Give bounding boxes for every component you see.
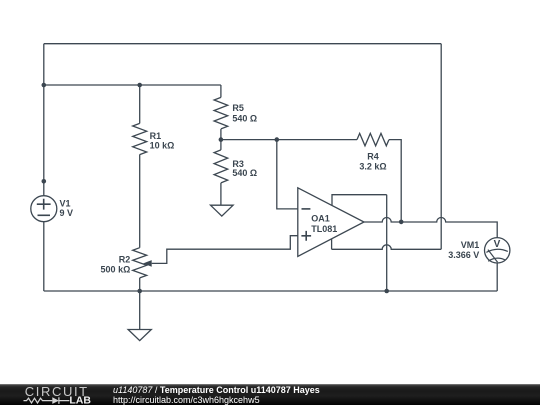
svg-text:TL081: TL081 xyxy=(311,224,337,234)
logo diode symbol xyxy=(52,397,59,404)
wire R5 top lead from second rail xyxy=(220,85,222,97)
junction dot output/feedback xyxy=(399,220,404,225)
wire op-amp V- pin stub xyxy=(331,239,333,250)
V1 plus sign xyxy=(37,199,51,210)
footer caption text xyxy=(113,385,320,405)
wire left rail lower (V1 - terminal to bottom rail) xyxy=(43,222,45,291)
resistor R3 xyxy=(214,150,228,183)
op-amp U1 triangle xyxy=(298,188,364,257)
footer bar xyxy=(0,384,540,405)
potentiometer R2 wiper arrow xyxy=(143,260,152,267)
wire R2 wiper to plus input xyxy=(152,236,298,264)
wire top rail xyxy=(44,43,441,45)
voltmeter VM1 needle and arcs xyxy=(486,249,508,252)
junction dot R2 bottom / ground xyxy=(137,289,142,294)
svg-text:R4: R4 xyxy=(367,152,379,162)
wire minus-input drop and entry xyxy=(277,140,298,209)
svg-text:V1: V1 xyxy=(60,198,71,208)
svg-text:OA1: OA1 xyxy=(311,214,330,224)
resistor R4 xyxy=(357,133,389,145)
svg-text:R5: R5 xyxy=(232,103,244,113)
ground (below R3) xyxy=(211,205,234,216)
wire R1 bottom to R2 top xyxy=(139,155,141,248)
wire V+ net vertical down to bottom rail xyxy=(386,195,388,291)
wire VM1 bottom lead xyxy=(496,263,498,291)
V1 minus sign xyxy=(38,214,51,216)
wire right vertical from top rail to V- net xyxy=(440,44,442,250)
potentiometer R2 element xyxy=(133,248,147,278)
svg-text:R1: R1 xyxy=(150,131,162,141)
wire op-amp output with hops xyxy=(364,218,497,238)
wire bottom rail to ground (below R2) xyxy=(139,291,141,330)
wire R5 bottom to node xyxy=(220,129,222,150)
svg-text:10 kΩ: 10 kΩ xyxy=(150,141,175,151)
voltage source V1 circle xyxy=(31,196,57,222)
logo resistor squiggle xyxy=(24,398,53,403)
svg-text:3.366 V: 3.366 V xyxy=(448,250,479,260)
resistor R5 xyxy=(214,97,228,129)
resistor R1 xyxy=(133,123,147,154)
wire left rail upper (top rail to V1 + terminal) xyxy=(43,44,45,196)
op-amp plus input sign xyxy=(301,231,311,241)
svg-text:VM1: VM1 xyxy=(461,240,480,250)
wire second rail (node to R1/R5) xyxy=(44,84,221,86)
junction dot R5/R3 node xyxy=(219,137,224,142)
svg-text:V: V xyxy=(494,239,501,250)
wire node R5/R3 to R4 left xyxy=(221,139,357,141)
junction dot minus-input branch xyxy=(275,137,280,142)
wire op-amp V+ pin stub and run to right xyxy=(332,195,387,206)
svg-text:3.2 kΩ: 3.2 kΩ xyxy=(359,162,386,172)
svg-text:500 kΩ: 500 kΩ xyxy=(101,264,131,274)
junction dot R1 top xyxy=(137,83,142,88)
wire R3 bottom to ground xyxy=(220,183,222,205)
svg-text:9 V: 9 V xyxy=(60,208,74,218)
junction dot left/second rail xyxy=(42,83,47,88)
ground (below R2) xyxy=(128,330,151,341)
svg-text:540 Ω: 540 Ω xyxy=(232,114,257,124)
svg-text:R2: R2 xyxy=(119,254,131,264)
op-amp minus input dash xyxy=(302,208,311,210)
voltmeter VM1 circle xyxy=(485,238,510,263)
wire R2 bottom to bottom rail xyxy=(139,278,141,291)
wire R1 top lead xyxy=(139,85,141,123)
junction dot V+ net / bottom rail xyxy=(384,289,389,294)
svg-text:540 Ω: 540 Ω xyxy=(232,168,257,178)
wire V- net run with hop over V+ vertical xyxy=(332,245,442,250)
junction dot V1 top terminal xyxy=(42,179,47,184)
wire R4 right lead to feedback drop xyxy=(389,140,401,222)
wire bottom rail xyxy=(44,290,497,292)
